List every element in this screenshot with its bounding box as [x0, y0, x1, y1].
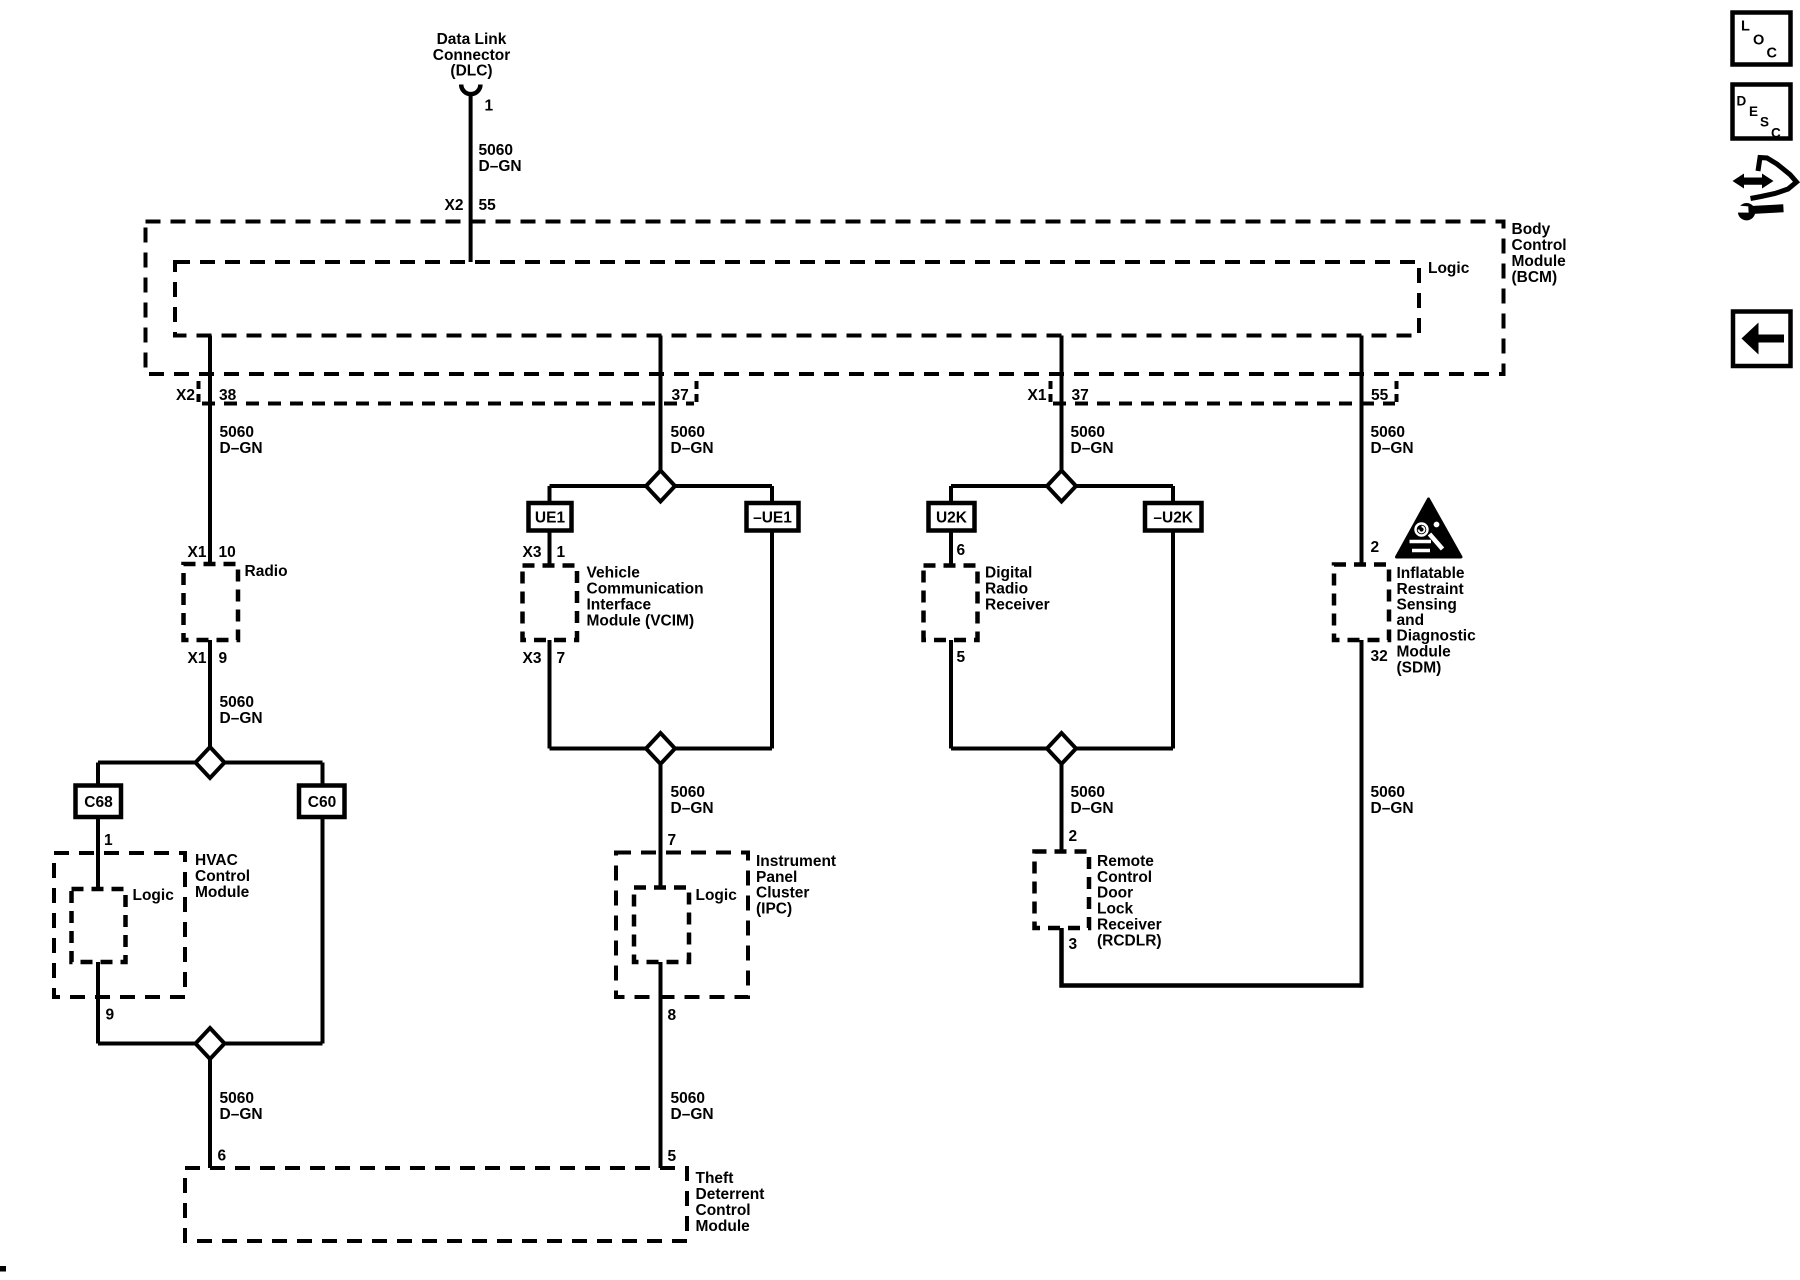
svg-text:5060: 5060: [671, 784, 705, 801]
svg-text:5060: 5060: [1071, 424, 1105, 441]
svg-text:Body: Body: [1512, 221, 1551, 238]
svg-text:(BCM): (BCM): [1512, 269, 1558, 286]
svg-text:U2K: U2K: [936, 510, 968, 527]
svg-text:D–GN: D–GN: [1371, 800, 1414, 817]
svg-text:Sensing: Sensing: [1397, 597, 1457, 614]
svg-text:Logic: Logic: [133, 887, 175, 904]
svg-text:5: 5: [668, 1148, 677, 1165]
svg-text:O: O: [1753, 33, 1764, 49]
svg-text:37: 37: [1072, 387, 1089, 404]
svg-text:10: 10: [219, 544, 236, 561]
svg-text:38: 38: [219, 387, 237, 404]
svg-text:–UE1: –UE1: [753, 510, 792, 527]
svg-text:Logic: Logic: [1428, 260, 1470, 277]
svg-text:C: C: [1771, 126, 1781, 141]
svg-text:(IPC): (IPC): [756, 901, 792, 918]
svg-text:1: 1: [104, 832, 113, 849]
svg-text:X3: X3: [523, 544, 542, 561]
svg-text:37: 37: [672, 387, 689, 404]
svg-text:Remote: Remote: [1097, 853, 1154, 870]
svg-text:5060: 5060: [1071, 784, 1105, 801]
svg-text:Radio: Radio: [245, 563, 288, 580]
svg-text:Module: Module: [696, 1218, 751, 1235]
svg-text:8: 8: [668, 1007, 677, 1024]
svg-text:7: 7: [557, 650, 566, 667]
svg-text:X2: X2: [445, 197, 464, 214]
svg-text:Vehicle: Vehicle: [587, 565, 641, 582]
svg-text:Control: Control: [195, 868, 250, 885]
svg-text:Door: Door: [1097, 885, 1133, 902]
svg-text:C68: C68: [84, 794, 113, 811]
svg-text:5060: 5060: [479, 142, 513, 159]
svg-text:HVAC: HVAC: [195, 852, 238, 869]
svg-text:Module: Module: [195, 884, 250, 901]
svg-text:Receiver: Receiver: [1097, 917, 1162, 934]
svg-text:Panel: Panel: [756, 869, 797, 886]
svg-text:and: and: [1397, 612, 1425, 629]
svg-text:Deterrent: Deterrent: [696, 1186, 765, 1203]
svg-text:C60: C60: [308, 794, 336, 811]
svg-text:–U2K: –U2K: [1153, 510, 1193, 527]
svg-text:Cluster: Cluster: [756, 885, 809, 902]
svg-text:X2: X2: [176, 387, 195, 404]
svg-text:D–GN: D–GN: [1371, 440, 1414, 457]
svg-text:X1: X1: [188, 650, 207, 667]
svg-text:6: 6: [218, 1148, 227, 1165]
svg-text:Interface: Interface: [587, 597, 652, 614]
svg-text:D–GN: D–GN: [1071, 440, 1114, 457]
svg-text:D–GN: D–GN: [220, 710, 263, 727]
svg-text:6: 6: [957, 542, 966, 559]
svg-text:9: 9: [219, 650, 228, 667]
svg-text:Module: Module: [1397, 644, 1452, 661]
svg-text:Diagnostic: Diagnostic: [1397, 628, 1477, 645]
svg-text:Inflatable: Inflatable: [1397, 565, 1465, 582]
svg-text:D–GN: D–GN: [671, 1106, 714, 1123]
svg-text:1: 1: [485, 98, 494, 115]
svg-text:C: C: [1767, 46, 1778, 62]
svg-text:S: S: [1760, 115, 1769, 130]
svg-text:D–GN: D–GN: [220, 440, 263, 457]
svg-text:2: 2: [1371, 539, 1380, 556]
svg-text:Instrument: Instrument: [756, 853, 836, 870]
svg-text:Module (VCIM): Module (VCIM): [587, 613, 695, 630]
svg-text:32: 32: [1371, 648, 1388, 665]
svg-text:5060: 5060: [1371, 784, 1405, 801]
svg-text:5060: 5060: [671, 1090, 705, 1107]
svg-text:Connector: Connector: [433, 47, 511, 64]
svg-text:Receiver: Receiver: [985, 597, 1050, 614]
svg-text:Radio: Radio: [985, 581, 1028, 598]
svg-text:(DLC): (DLC): [450, 63, 492, 80]
svg-text:5060: 5060: [220, 694, 254, 711]
svg-text:5060: 5060: [671, 424, 705, 441]
svg-text:55: 55: [479, 197, 497, 214]
svg-text:D–GN: D–GN: [1071, 800, 1114, 817]
svg-text:(SDM): (SDM): [1397, 660, 1442, 677]
svg-text:5060: 5060: [220, 1090, 254, 1107]
svg-text:Logic: Logic: [696, 887, 738, 904]
svg-text:Communication: Communication: [587, 581, 704, 598]
svg-text:D–GN: D–GN: [671, 440, 714, 457]
svg-text:X1: X1: [188, 544, 207, 561]
svg-text:9: 9: [106, 1007, 115, 1024]
svg-text:Lock: Lock: [1097, 901, 1134, 918]
svg-text:Theft: Theft: [696, 1170, 734, 1187]
svg-text:(RCDLR): (RCDLR): [1097, 933, 1162, 950]
svg-text:Digital: Digital: [985, 565, 1032, 582]
svg-text:Control: Control: [1097, 869, 1152, 886]
svg-text:5060: 5060: [1371, 424, 1405, 441]
svg-text:D: D: [1737, 94, 1747, 109]
svg-text:5: 5: [957, 649, 966, 666]
svg-text:55: 55: [1371, 387, 1389, 404]
svg-text:Control: Control: [1512, 237, 1567, 254]
svg-text:X1: X1: [1028, 387, 1047, 404]
svg-text:X3: X3: [523, 650, 542, 667]
svg-text:1: 1: [557, 544, 566, 561]
svg-text:D–GN: D–GN: [479, 158, 522, 175]
svg-text:Module: Module: [1512, 253, 1567, 270]
svg-text:2: 2: [1069, 828, 1078, 845]
svg-text:L: L: [1741, 19, 1750, 35]
svg-text:UE1: UE1: [535, 510, 566, 527]
svg-text:3: 3: [1069, 936, 1078, 953]
svg-text:5060: 5060: [220, 424, 254, 441]
svg-text:D–GN: D–GN: [671, 800, 714, 817]
svg-text:D–GN: D–GN: [220, 1106, 263, 1123]
svg-text:7: 7: [668, 832, 677, 849]
svg-text:Data Link: Data Link: [437, 31, 507, 48]
svg-text:Control: Control: [696, 1202, 751, 1219]
svg-text:Restraint: Restraint: [1397, 581, 1464, 598]
svg-text:E: E: [1749, 104, 1758, 119]
